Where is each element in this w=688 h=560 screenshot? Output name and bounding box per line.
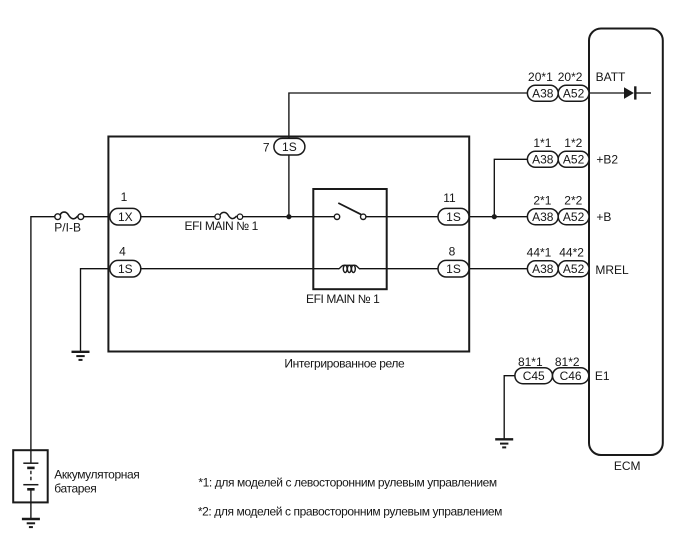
connector A38 pin 1*1 (+B2) — [527, 151, 558, 167]
svg-text:+B: +B — [596, 210, 611, 224]
wire pin 1 to EFI MAIN fuse — [141, 216, 215, 218]
wire battery positive to P/I-B fuse — [31, 217, 55, 451]
wire pin 11 to junction B — [469, 216, 495, 218]
svg-text:1X: 1X — [118, 210, 133, 224]
svg-text:P/I-B: P/I-B — [54, 221, 81, 235]
svg-text:MREL: MREL — [595, 263, 629, 277]
connector A52 pin 20*2 (BATT) — [558, 85, 589, 101]
svg-text:A38: A38 — [532, 210, 554, 224]
svg-text:2*1: 2*1 — [533, 193, 551, 207]
svg-text:1S: 1S — [282, 140, 297, 154]
svg-text:44*1: 44*1 — [527, 245, 552, 259]
svg-text:*1: для моделей с левосторонни: *1: для моделей с левосторонним рулевым … — [198, 476, 497, 490]
battery cell symbol — [23, 450, 38, 502]
wire pin 4 to ground — [81, 269, 110, 352]
diode D1 — [624, 86, 635, 99]
wire fuse P/I-B to relay pin 1 — [84, 216, 110, 218]
svg-text:C46: C46 — [560, 369, 582, 383]
wire fuse EFI MAIN to junction A — [243, 216, 289, 218]
svg-text:1: 1 — [121, 190, 128, 204]
wire diode cathode stub — [636, 92, 651, 94]
svg-text:*2: для моделей с правосторонн: *2: для моделей с правосторонним рулевым… — [198, 505, 502, 519]
ground G2 (battery) — [22, 519, 40, 527]
wire junction B to ECM +B pin — [494, 216, 527, 218]
svg-text:1S: 1S — [446, 210, 461, 224]
wire ECM E1 pin to ground — [504, 376, 515, 439]
svg-text:8: 8 — [449, 245, 456, 259]
wire junction B up to ECM +B2 pin — [494, 159, 527, 216]
relay pin 7 (1S) — [274, 138, 305, 155]
svg-text:1S: 1S — [446, 262, 461, 276]
svg-text:11: 11 — [443, 191, 456, 205]
svg-text:20*2: 20*2 — [558, 70, 583, 84]
svg-text:EFI MAIN № 1: EFI MAIN № 1 — [185, 219, 259, 233]
svg-text:1*1: 1*1 — [533, 136, 551, 150]
node B junction dot — [492, 214, 497, 219]
connector A38 pin 2*1 (+B) — [527, 209, 558, 225]
svg-text:2*2: 2*2 — [564, 193, 582, 207]
svg-text:20*1: 20*1 — [528, 70, 553, 84]
svg-text:A38: A38 — [532, 87, 554, 101]
svg-text:4: 4 — [119, 245, 126, 259]
svg-text:A38: A38 — [532, 153, 554, 167]
ground G1 (relay pin 4) — [72, 352, 90, 360]
svg-text:батарея: батарея — [54, 482, 96, 496]
wire switch to pin 11 — [366, 216, 438, 218]
relay pin 11 (1S) — [438, 208, 469, 225]
wire pin 7 to ECM BATT pin — [289, 93, 528, 138]
integrated relay box — [108, 137, 469, 352]
inductor relay coil — [338, 265, 360, 272]
connector A52 pin 2*2 (+B) — [558, 209, 589, 225]
svg-text:A52: A52 — [563, 153, 585, 167]
svg-text:A52: A52 — [563, 210, 585, 224]
svg-text:+B2: +B2 — [596, 153, 618, 167]
connector A52 pin 44*2 (MREL) — [558, 261, 589, 277]
relay pin 8 (1S) — [438, 260, 469, 277]
ground G3 (E1) — [495, 439, 513, 447]
svg-text:EFI MAIN № 1: EFI MAIN № 1 — [306, 292, 380, 306]
wire pin 4 to relay coil — [141, 268, 340, 270]
svg-text:1*2: 1*2 — [564, 136, 582, 150]
svg-text:7: 7 — [263, 140, 270, 154]
fuse P/I-B — [55, 212, 84, 220]
relay pin 4 (1S) — [110, 260, 141, 277]
relay switch — [334, 203, 366, 220]
svg-text:A38: A38 — [532, 262, 554, 276]
relay pin 1 (1X) — [110, 208, 141, 225]
connector A38 pin 44*1 (MREL) — [527, 261, 558, 277]
wire junction A up to relay pin 7 — [288, 140, 290, 217]
battery box — [13, 450, 48, 502]
svg-text:C45: C45 — [523, 369, 545, 383]
wire coil to pin 8 — [359, 268, 438, 270]
svg-text:BATT: BATT — [596, 70, 626, 84]
svg-text:Интегрированное реле: Интегрированное реле — [284, 356, 405, 370]
connector A52 pin 1*2 (+B2) — [558, 151, 589, 167]
wire ECM BATT pin to diode — [589, 92, 624, 94]
svg-text:44*2: 44*2 — [559, 245, 584, 259]
relay EFI MAIN No 1 inner box — [313, 189, 386, 289]
svg-text:A52: A52 — [563, 87, 585, 101]
wire battery negative to ground — [30, 502, 32, 518]
connector C46 pin 81*2 (E1) — [553, 368, 589, 384]
svg-text:81*1: 81*1 — [518, 355, 543, 369]
svg-text:Аккумуляторная: Аккумуляторная — [54, 468, 139, 482]
svg-text:81*2: 81*2 — [555, 355, 580, 369]
svg-text:ECM: ECM — [614, 459, 641, 473]
svg-text:E1: E1 — [595, 369, 610, 383]
ECM box — [589, 29, 663, 456]
node A junction dot — [286, 214, 291, 219]
fuse EFI MAIN No 1 — [215, 212, 243, 219]
wire pin 8 to ECM MREL pin — [469, 268, 528, 270]
svg-text:1S: 1S — [118, 262, 133, 276]
connector A38 pin 20*1 (BATT) — [527, 85, 558, 101]
svg-text:A52: A52 — [563, 262, 585, 276]
connector C45 pin 81*1 (E1) — [515, 368, 553, 384]
wire junction A to switch contact — [289, 216, 335, 218]
